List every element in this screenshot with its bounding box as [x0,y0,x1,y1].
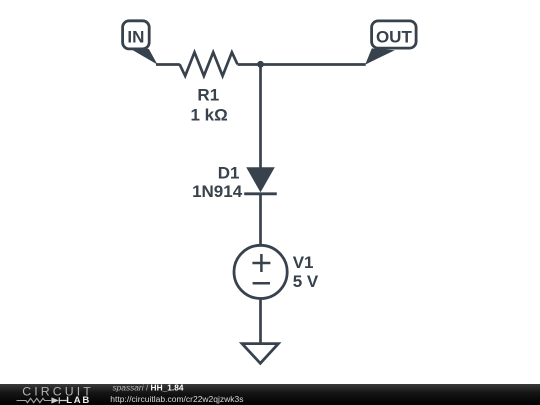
footer bar [0,384,540,405]
svg-text:http://circuitlab.com/cr22w2qj: http://circuitlab.com/cr22w2qjzwk3s [110,394,243,404]
ground [242,344,278,364]
CircuitLab logo [17,384,94,405]
resistor R1 [180,52,238,76]
svg-text:5 V: 5 V [293,272,319,291]
diode D1 [244,167,277,194]
svg-text:R1: R1 [197,86,219,105]
svg-text:OUT: OUT [376,28,413,47]
svg-text:1 kΩ: 1 kΩ [190,106,227,125]
svg-text:IN: IN [127,27,144,46]
svg-text:1N914: 1N914 [192,182,243,201]
net flag OUT [365,21,416,65]
wire V1 to ground [259,299,262,344]
node A junction [257,61,264,68]
wire R1 to OUT [238,63,366,66]
voltage source V1 [234,245,287,298]
wire D1 to V1 [259,194,262,246]
svg-text:LAB: LAB [66,395,91,405]
wire IN to R1 [156,63,180,66]
wire node A to D1 [259,65,262,169]
svg-text:V1: V1 [293,253,314,272]
net flag IN [123,21,158,65]
svg-text:D1: D1 [218,164,240,183]
svg-text:spassari / HH_1.84: spassari / HH_1.84 [113,383,184,393]
